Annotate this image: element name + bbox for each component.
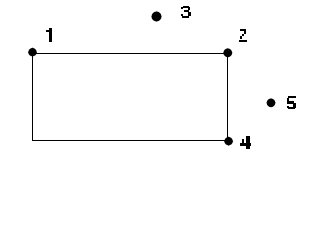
- wire bottom edge of rectangle: [32, 140, 228, 141]
- wire left edge of rectangle: [32, 53, 33, 141]
- node 2 dot: [223, 48, 232, 57]
- label 3: [181, 6, 191, 18]
- wire right edge of rectangle: [227, 53, 228, 141]
- label 2: [239, 29, 247, 42]
- node 3 dot: [151, 11, 161, 21]
- label 1: [46, 28, 52, 42]
- label 5: [287, 96, 296, 109]
- node 1 dot: [28, 48, 37, 57]
- wire top edge of rectangle: [32, 53, 228, 54]
- label 4: [240, 136, 251, 149]
- node 4 dot: [224, 137, 233, 146]
- node 5 dot: [266, 98, 275, 107]
